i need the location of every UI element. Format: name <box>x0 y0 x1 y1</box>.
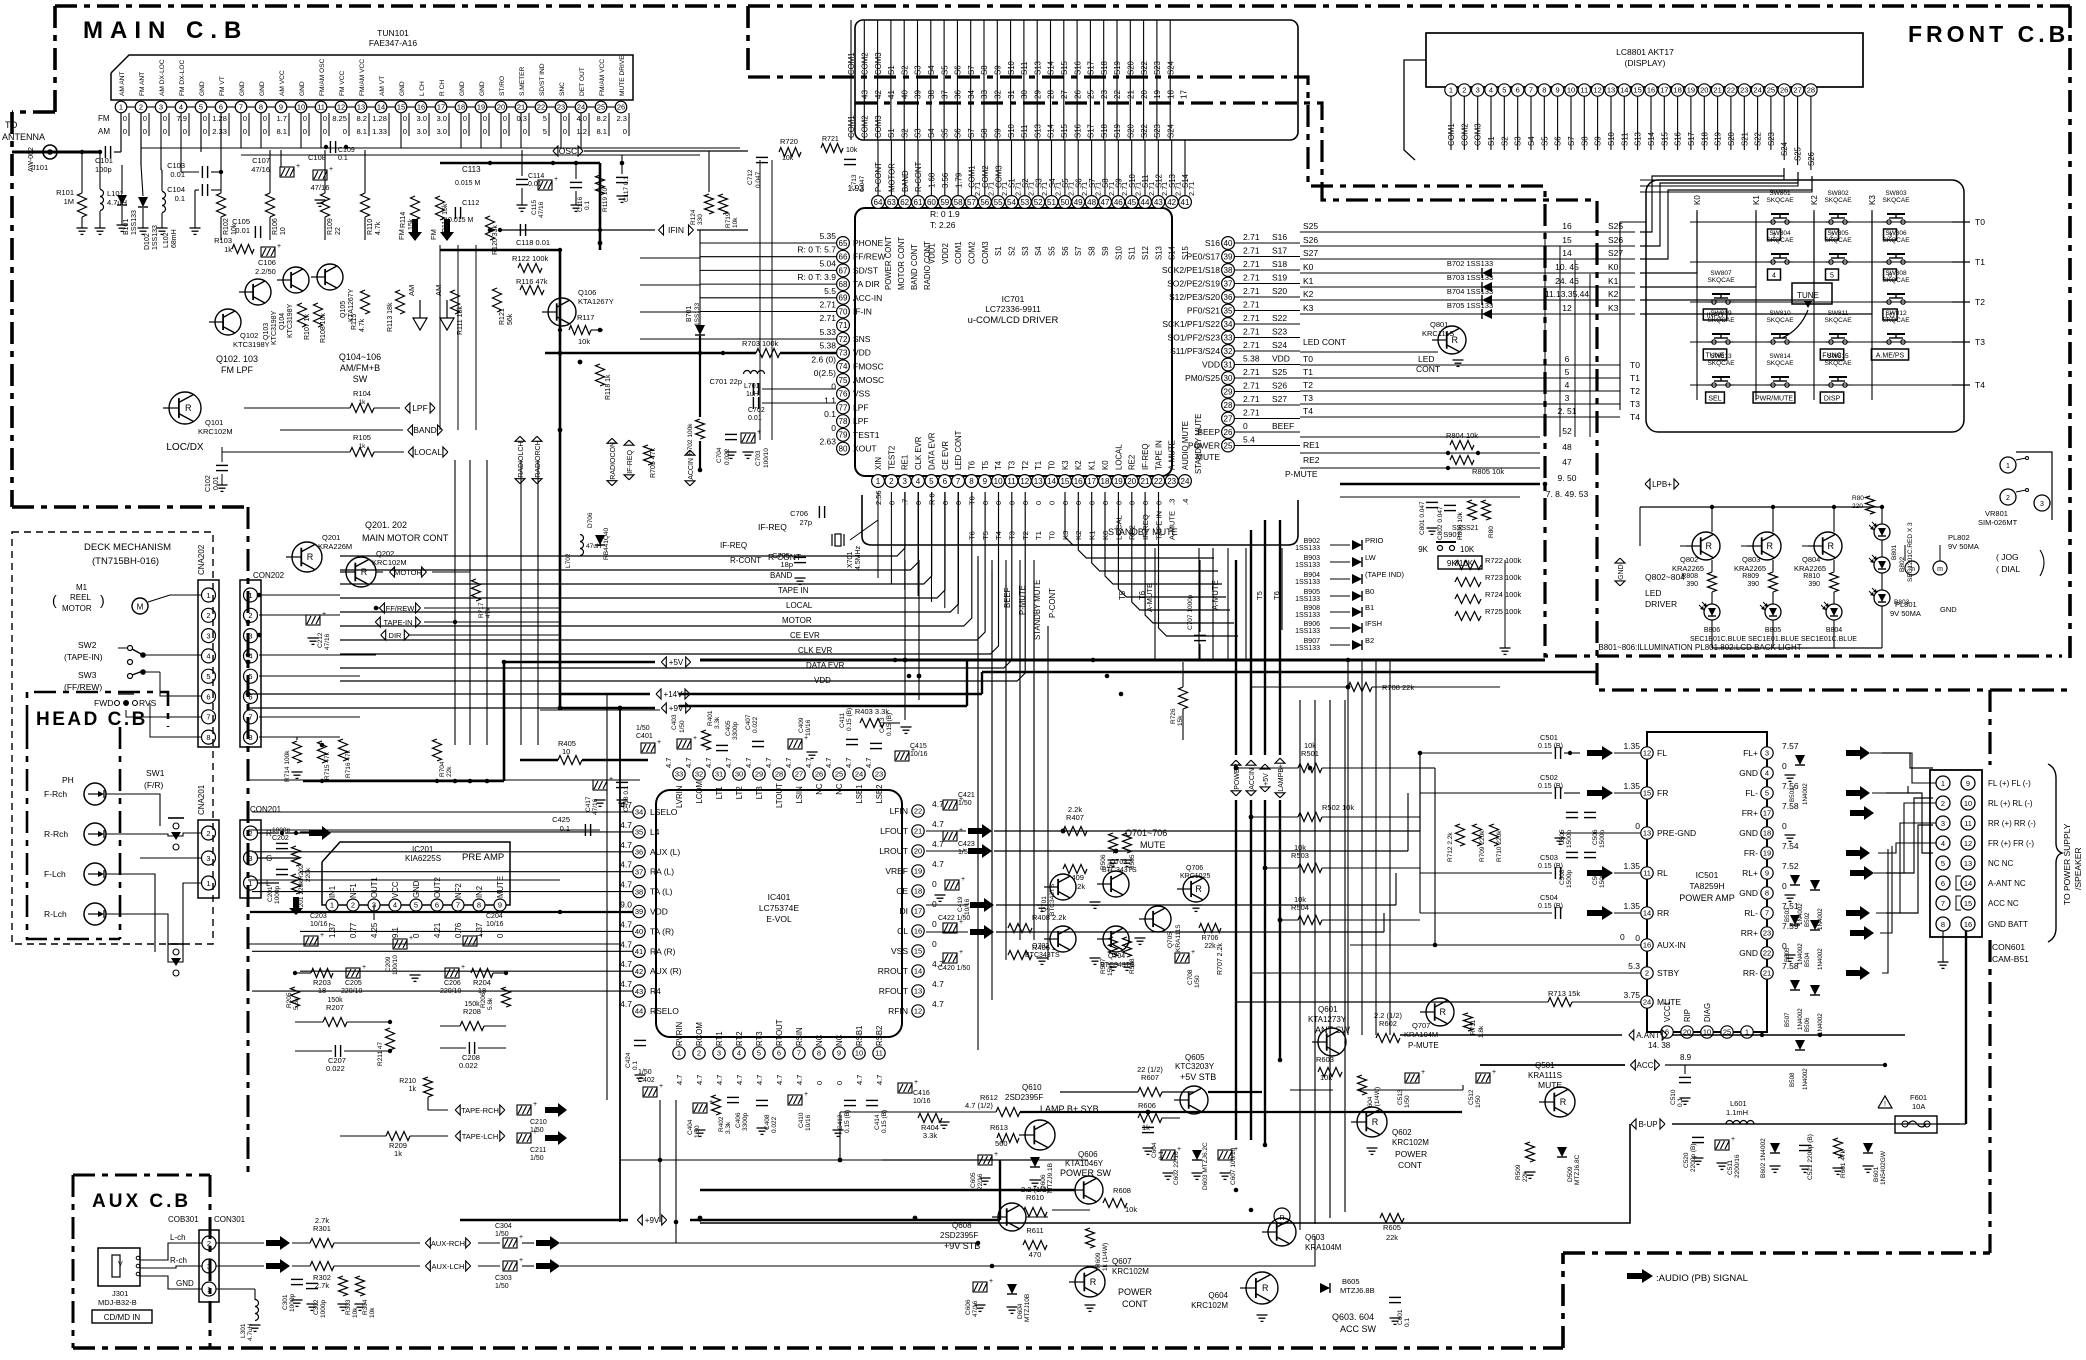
connector column S15 <box>1063 20 1065 140</box>
svg-text:R705 47k: R705 47k <box>650 448 657 478</box>
svg-text:19: 19 <box>1763 849 1771 858</box>
svg-text:15: 15 <box>914 947 922 956</box>
svg-text:S11/PF3/S24: S11/PF3/S24 <box>1170 346 1220 356</box>
svg-text:4.7 (1/2): 4.7 (1/2) <box>965 1101 993 1110</box>
capsule wire 5 <box>944 140 946 196</box>
svg-text:Q610: Q610 <box>1022 1083 1042 1092</box>
IC701 pin 33 wire <box>1234 337 1300 339</box>
R114 resistor <box>411 196 420 220</box>
svg-text:SW808: SW808 <box>1885 270 1907 277</box>
IC701 pin 10 <box>992 475 1005 488</box>
IC701 pin 64 <box>872 196 885 209</box>
junction <box>1061 829 1066 834</box>
svg-text:T0: T0 <box>1048 460 1057 470</box>
IC701 capsule bundle outline <box>862 495 1298 545</box>
capsule wire 21 <box>1157 140 1159 196</box>
svg-text:T1: T1 <box>1975 257 1985 267</box>
IC401 pin 7 <box>793 1047 805 1059</box>
wire con201 l <box>258 882 279 884</box>
IC701 pin 33 <box>1222 331 1235 344</box>
svg-text:14: 14 <box>1620 86 1628 95</box>
svg-text:S15: S15 <box>1660 131 1669 146</box>
svg-text:58: 58 <box>954 198 963 207</box>
svg-text:R602: R602 <box>1379 1019 1397 1028</box>
svg-text:BTC343TS: BTC343TS <box>1049 883 1056 916</box>
svg-text:4.7: 4.7 <box>620 840 632 850</box>
wire bup col <box>700 1124 1630 1223</box>
svg-text:C203: C203 <box>310 913 327 920</box>
svg-text:Q604: Q604 <box>1208 1291 1228 1300</box>
svg-text:DRIVER: DRIVER <box>1645 599 1677 609</box>
svg-text:77: 77 <box>839 403 848 412</box>
connector column S13 <box>1036 20 1038 140</box>
svg-text:560: 560 <box>995 1139 1008 1148</box>
IC401 pin 6 <box>773 1047 785 1059</box>
svg-text:S19: S19 <box>1272 273 1287 283</box>
svg-text:9: 9 <box>837 1049 841 1058</box>
svg-text:S22: S22 <box>1754 132 1763 146</box>
svg-text:LPF: LPF <box>412 403 428 413</box>
svg-text:ACCIN: ACCIN <box>1249 768 1256 790</box>
svg-text:1500p: 1500p <box>1599 870 1606 888</box>
svg-text:COM1: COM1 <box>954 241 963 264</box>
wire con201 r <box>258 832 279 834</box>
switch SW801 <box>1771 220 1775 224</box>
key matrix box <box>1646 180 1964 432</box>
IC701 pin 72 <box>837 333 850 346</box>
matrix K2 vertical wire <box>1813 210 1815 400</box>
svg-text:S21: S21 <box>1740 132 1749 146</box>
C206 ecap <box>445 968 459 978</box>
svg-text:L702: L702 <box>565 553 572 568</box>
diode B503 1N4002 <box>1790 875 1800 885</box>
junction <box>558 706 563 711</box>
C401 ecap <box>641 743 655 753</box>
svg-text:1: 1 <box>330 901 334 910</box>
svg-text:S6: S6 <box>1554 136 1563 146</box>
center verticals <box>977 560 979 1050</box>
M1 motor <box>132 598 148 614</box>
IC701 pin 44 <box>1139 196 1152 209</box>
IC501 gnd pin 18 <box>1785 834 1796 836</box>
svg-text:8.1: 8.1 <box>596 127 607 136</box>
connector column S1 <box>890 20 892 140</box>
svg-text:L102: L102 <box>163 232 170 248</box>
svg-text:FL+: FL+ <box>1743 748 1758 758</box>
svg-text:0.022: 0.022 <box>752 716 759 733</box>
IC401 body <box>656 790 902 1037</box>
svg-text:C607 100/10: C607 100/10 <box>1230 1147 1237 1185</box>
svg-text:10k: 10k <box>732 217 739 228</box>
svg-text:Q606: Q606 <box>1078 1150 1098 1159</box>
svg-text:0.15 (B): 0.15 (B) <box>846 708 853 731</box>
svg-text:ACC SW: ACC SW <box>1340 1324 1377 1334</box>
R505 resistor <box>1123 833 1132 853</box>
svg-text:PL801: PL801 <box>1895 600 1917 609</box>
svg-text:3.3k: 3.3k <box>923 1131 937 1140</box>
svg-text:42: 42 <box>1167 198 1176 207</box>
svg-text:4.7: 4.7 <box>664 758 673 768</box>
aux border vertical <box>209 1175 212 1348</box>
svg-text:19: 19 <box>914 867 922 876</box>
TAPE-LCH tag <box>455 1131 460 1141</box>
svg-text:4.7: 4.7 <box>804 758 813 768</box>
svg-text:2.71: 2.71 <box>1243 286 1260 296</box>
svg-text:27p: 27p <box>799 518 812 527</box>
IC701 pin 20 <box>1125 475 1138 488</box>
svg-text:PM0/S25: PM0/S25 <box>1185 373 1220 383</box>
svg-text:S20: S20 <box>1727 131 1736 146</box>
svg-text:B605: B605 <box>1342 1277 1360 1286</box>
IC701 pin 32 wire <box>1234 350 1300 352</box>
encoder circle 1 <box>2000 457 2016 473</box>
svg-text:60: 60 <box>927 198 936 207</box>
svg-text:1SS133: 1SS133 <box>131 210 138 235</box>
C504 cap <box>1554 907 1556 919</box>
svg-text:NC: NC <box>835 783 844 795</box>
svg-text:R: R <box>1440 1007 1447 1017</box>
svg-text:2: 2 <box>697 1049 701 1058</box>
svg-text:20: 20 <box>1700 86 1708 95</box>
CNA202 pin 3 <box>202 629 216 643</box>
svg-text:R206: R206 <box>480 992 487 1008</box>
wire ic401 feed <box>252 891 633 893</box>
svg-text:R713 15k: R713 15k <box>1548 989 1580 998</box>
connector column S2 <box>903 20 905 140</box>
wire low h2 <box>248 943 620 945</box>
svg-text:C707 1000p: C707 1000p <box>1187 594 1194 630</box>
svg-text:FM: FM <box>429 229 438 240</box>
svg-text:0: 0 <box>932 919 937 929</box>
svg-text:71: 71 <box>839 321 848 330</box>
svg-text:BAND: BAND <box>413 425 437 435</box>
svg-text:16: 16 <box>1562 221 1572 231</box>
C412 cap <box>844 1099 856 1101</box>
R713 resistor <box>1548 998 1572 1007</box>
svg-text:57: 57 <box>967 198 976 207</box>
svg-text:C204: C204 <box>486 913 503 920</box>
svg-text:0.1: 0.1 <box>584 201 591 210</box>
C802 cap <box>1444 504 1456 506</box>
junction <box>913 1216 918 1221</box>
svg-text:B0: B0 <box>1365 587 1374 596</box>
svg-text:T1: T1 <box>1034 531 1043 540</box>
svg-text:S25: S25 <box>1272 367 1287 377</box>
diode B501 1N4002 <box>1795 755 1805 765</box>
svg-text:S3: S3 <box>914 65 923 75</box>
svg-text:T4: T4 <box>1303 406 1313 416</box>
wire bundle <box>1132 492 1230 610</box>
svg-text:R-CONT: R-CONT <box>768 552 801 562</box>
wire vertical midright <box>1361 660 1363 1035</box>
svg-text:4.7: 4.7 <box>620 880 632 890</box>
wire vert boundary <box>1544 232 1546 437</box>
svg-text:29: 29 <box>1033 90 1042 99</box>
svg-text:2.71: 2.71 <box>819 313 836 323</box>
svg-text:6: 6 <box>943 477 948 486</box>
svg-text:12: 12 <box>1643 749 1651 758</box>
C502 cap <box>1554 787 1556 799</box>
D102 diode <box>138 197 148 207</box>
svg-text:R603: R603 <box>1316 1055 1334 1064</box>
C413 cap <box>870 742 882 744</box>
display pin 26 wire <box>1783 96 1785 160</box>
display pin 8 wire <box>1543 96 1545 150</box>
svg-text:LT2: LT2 <box>735 786 744 799</box>
wire vertical midright <box>1375 660 1377 1035</box>
IC501 gnd pin 22 <box>1785 954 1796 956</box>
svg-text:2SD2395F: 2SD2395F <box>1005 1093 1043 1102</box>
R112 resistor <box>436 196 445 220</box>
svg-text:+: + <box>362 964 366 971</box>
svg-text:1k (1/4W): 1k (1/4W) <box>1102 1243 1109 1271</box>
display pin 19 <box>1685 84 1697 96</box>
svg-text:ST/RO: ST/RO <box>499 76 506 96</box>
IC701 pin 19 <box>1112 475 1125 488</box>
svg-text:L701: L701 <box>744 383 760 390</box>
IC501 pin 6 <box>1661 1026 1673 1038</box>
L701 coil <box>744 371 751 375</box>
+5V vtag <box>1260 787 1270 792</box>
svg-text:16: 16 <box>417 103 425 112</box>
IC701 pin 80 <box>837 442 850 455</box>
svg-text:LED: LED <box>1645 588 1662 598</box>
wire bus <box>340 492 999 654</box>
led q804 wires <box>1833 507 1835 532</box>
svg-text:40: 40 <box>1224 239 1233 248</box>
svg-text:+: + <box>479 932 483 939</box>
svg-text:R506: R506 <box>1100 854 1107 870</box>
svg-text:0.76: 0.76 <box>454 923 463 938</box>
svg-text:4: 4 <box>1489 86 1493 95</box>
diode B904 <box>1352 574 1362 584</box>
tape rch arrow <box>545 1103 567 1117</box>
svg-text:FR-: FR- <box>1744 848 1758 858</box>
IC701 pin 34 <box>1222 318 1235 331</box>
IC701 pin 30 wire <box>1234 377 1300 379</box>
svg-text:7. 8. 49. 53: 7. 8. 49. 53 <box>1546 489 1589 499</box>
svg-text:8: 8 <box>477 901 481 910</box>
svg-text:41: 41 <box>635 947 643 956</box>
svg-text:S9: S9 <box>994 65 1003 75</box>
svg-text:K2: K2 <box>1608 289 1619 299</box>
keycap 4 <box>1768 269 1781 280</box>
bus h4 <box>679 705 967 707</box>
svg-text:1000p: 1000p <box>274 886 281 904</box>
CON201 pin 3 <box>244 851 258 865</box>
display pin 18 <box>1671 84 1683 96</box>
svg-text:31: 31 <box>1007 90 1016 99</box>
svg-text:23: 23 <box>1167 477 1176 486</box>
svg-text:S9: S9 <box>994 128 1003 138</box>
R712 resistor <box>1456 824 1465 846</box>
svg-text:R CH: R CH <box>439 80 446 96</box>
svg-text:KTC3198Y: KTC3198Y <box>233 340 270 349</box>
svg-text:Q106: Q106 <box>578 288 596 297</box>
wire K1 long <box>1300 286 1635 288</box>
wire bus <box>340 492 972 626</box>
svg-text:8.1: 8.1 <box>276 127 287 136</box>
IC201 pin 4 <box>389 899 401 911</box>
svg-text:R725 100k: R725 100k <box>1485 607 1522 616</box>
R302 resistor <box>310 1262 334 1271</box>
svg-text:4: 4 <box>1765 769 1769 778</box>
svg-text:330: 330 <box>697 214 704 225</box>
IC501 pin 13 <box>1641 827 1653 839</box>
svg-text:CON301: CON301 <box>214 1215 246 1224</box>
RFOUT arrow <box>970 925 994 939</box>
tuner pin 22 <box>535 101 547 113</box>
svg-text:AM DX-LOC: AM DX-LOC <box>159 59 166 96</box>
svg-text:2.71: 2.71 <box>819 300 836 310</box>
keycap SEL <box>1706 392 1725 403</box>
svg-text:1k: 1k <box>409 1086 417 1093</box>
svg-text:22k: 22k <box>1204 943 1216 950</box>
svg-text:FMOSC: FMOSC <box>853 361 884 371</box>
svg-text:2.71: 2.71 <box>1243 408 1260 418</box>
svg-text:25: 25 <box>835 770 843 779</box>
svg-text:+5V: +5V <box>1263 773 1270 786</box>
svg-text:E-VOL: E-VOL <box>766 914 792 924</box>
svg-text:+: + <box>1421 1069 1425 1076</box>
svg-text:2SD2395F: 2SD2395F <box>940 1231 978 1240</box>
R124 resistor <box>705 194 714 214</box>
front c.b border top <box>748 4 2070 8</box>
svg-text:K0: K0 <box>1303 262 1314 272</box>
svg-text:0: 0 <box>403 127 407 136</box>
main/deck border vertical <box>247 507 250 1175</box>
svg-text:S2: S2 <box>1008 246 1017 256</box>
POWER vtag <box>1231 791 1241 796</box>
svg-text:BAND: BAND <box>770 571 792 580</box>
IC701 pin 79 <box>837 428 850 441</box>
IC501 pin 21 <box>1761 967 1773 979</box>
svg-text:T2: T2 <box>1975 297 1985 307</box>
svg-text:35: 35 <box>1224 306 1233 315</box>
display pin 21 <box>1711 84 1723 96</box>
svg-text:S26: S26 <box>1272 381 1287 391</box>
svg-text:+5V STB: +5V STB <box>1180 1072 1216 1082</box>
R507 resistor <box>1109 937 1118 957</box>
diode B705 <box>1482 309 1492 319</box>
svg-text:2.2/50: 2.2/50 <box>255 267 276 276</box>
svg-text:0: 0 <box>303 114 307 123</box>
svg-text:AM VT: AM VT <box>379 76 386 96</box>
svg-text:KRA2265: KRA2265 <box>1794 564 1826 573</box>
svg-text:SW1: SW1 <box>146 768 165 778</box>
svg-text:2.71: 2.71 <box>1243 340 1260 350</box>
svg-text:( DIAL: ( DIAL <box>1996 564 2020 574</box>
IC401 pin 13 <box>912 985 924 997</box>
LED B805 <box>1765 604 1781 620</box>
CON202 pin 6 <box>244 690 258 704</box>
matrix row wire T1 <box>1690 261 1952 263</box>
fat arrow preamp down <box>289 897 303 915</box>
Q202 transistor <box>346 557 376 587</box>
C117 cap <box>616 176 628 178</box>
svg-text:B904: B904 <box>1304 572 1320 579</box>
svg-text:PRE AMP: PRE AMP <box>462 852 504 863</box>
svg-text:15: 15 <box>1643 789 1651 798</box>
svg-text:SKQCAE: SKQCAE <box>1766 237 1794 244</box>
svg-text:4: 4 <box>1941 839 1945 848</box>
junction <box>1105 674 1110 679</box>
tune curve arrow <box>1782 310 1808 338</box>
CON601 staircase wires <box>1870 753 1936 783</box>
capsule wire 18 <box>1117 140 1119 196</box>
svg-text:25: 25 <box>1767 86 1775 95</box>
svg-text:3: 3 <box>1476 86 1480 95</box>
svg-text:+: + <box>1731 1136 1735 1143</box>
Q501 transistor <box>1545 1087 1575 1117</box>
R715 resistor <box>318 741 327 763</box>
svg-text:1SS133: 1SS133 <box>1295 612 1320 619</box>
svg-text:COM1: COM1 <box>847 115 856 138</box>
svg-text:AUX-LCH: AUX-LCH <box>432 1262 465 1271</box>
C425 cap <box>584 824 586 836</box>
svg-text:RL: RL <box>1657 868 1668 878</box>
wires ic701 left <box>700 242 836 244</box>
junction <box>1249 815 1254 820</box>
wire stby feed <box>1251 972 1420 974</box>
svg-text:D509: D509 <box>1567 1166 1574 1182</box>
wire bus <box>340 492 918 570</box>
R119 resistor <box>596 175 605 195</box>
connector column S7 <box>970 20 972 140</box>
capsule wire 4 <box>930 140 932 196</box>
R106 resistor <box>266 193 275 217</box>
S26 wire from display <box>1640 172 1798 186</box>
aux arrow 2 <box>266 1259 290 1273</box>
svg-text:C106: C106 <box>258 258 276 267</box>
svg-text:COM3: COM3 <box>874 115 883 138</box>
wire t-row <box>1952 341 1970 343</box>
svg-text:RADIOCON: RADIOCON <box>610 442 617 480</box>
R702 resistor <box>696 419 705 439</box>
Q605 transistor <box>1180 1086 1208 1114</box>
fat arrow preamp R <box>309 826 331 840</box>
R203 resistor <box>311 969 333 978</box>
svg-text:TAPE-LCH: TAPE-LCH <box>462 1132 499 1141</box>
svg-text:S12: S12 <box>1141 246 1150 260</box>
svg-text:FM/AM VCC: FM/AM VCC <box>599 59 606 96</box>
S27 wire from display <box>1640 176 1812 192</box>
C605 ecap <box>978 1155 992 1165</box>
svg-text:COM2: COM2 <box>861 115 870 138</box>
svg-text:1N4002: 1N4002 <box>1817 1013 1824 1035</box>
svg-text:C419: C419 <box>957 896 964 912</box>
svg-text:SKQCAE: SKQCAE <box>1824 317 1852 324</box>
svg-text:GND: GND <box>412 880 421 898</box>
svg-text:SNS: SNS <box>853 334 871 344</box>
diode B502 1N4002 <box>1810 880 1820 890</box>
svg-text:V: V <box>118 1261 123 1268</box>
svg-text:FM DX-LOC: FM DX-LOC <box>179 59 186 96</box>
R807 resistor <box>1482 500 1491 520</box>
svg-text:LPF: LPF <box>853 416 869 426</box>
R601 resistor <box>1834 1138 1843 1158</box>
svg-text:C401: C401 <box>636 733 653 740</box>
svg-text:Q803: Q803 <box>1742 555 1760 564</box>
IC401 pin 29 <box>753 768 765 780</box>
svg-text:35: 35 <box>635 828 643 837</box>
CON201 strip <box>240 820 261 898</box>
svg-text:32: 32 <box>1224 347 1233 356</box>
svg-text:5: 5 <box>206 672 210 681</box>
svg-text:31: 31 <box>1224 360 1233 369</box>
svg-text:Q705: Q705 <box>1167 932 1174 948</box>
svg-text:+: + <box>961 876 965 883</box>
